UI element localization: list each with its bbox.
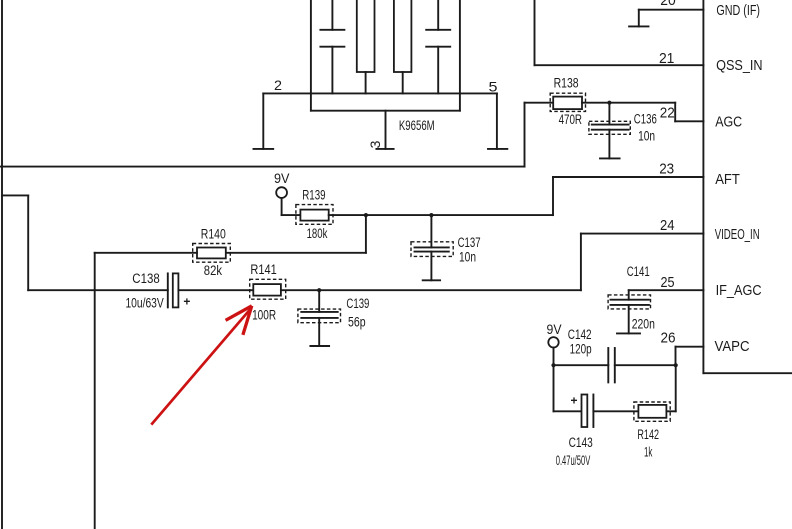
svg-text:+: + [183,294,190,308]
resistor R142 [634,402,670,421]
svg-text:R138: R138 [554,76,579,91]
wire pin 25 [629,289,704,291]
wire drop to pin 22 [674,103,676,122]
svg-text:R140: R140 [201,227,226,242]
wire left page border [1,0,3,529]
node junction R140 [364,213,368,217]
wire C142 right lead [615,364,676,366]
wire long horizontal net to R138 [0,166,525,168]
capacitor C142 [608,348,615,382]
resistor R138 [550,93,585,111]
svg-text:C142: C142 [568,327,592,342]
ground C137 [423,279,440,281]
capacitor C139 [298,290,341,346]
ceramic filter U-body outline K9656M [311,0,460,111]
svg-text:+: + [570,394,577,408]
capacitor C138 (electrolytic) [168,273,191,308]
wire left stub from border [2,195,28,290]
capacitor internal Ca [320,0,344,93]
wire C143 left lead [554,410,582,412]
wire riser to R138 [524,103,526,167]
resonator element internal Xa [357,0,375,93]
svg-text:26: 26 [661,330,676,347]
capacitor C143 (electrolytic) [570,394,593,428]
svg-text:C139: C139 [346,296,369,311]
svg-text:5: 5 [489,78,498,94]
node junction C139 [317,288,321,292]
ground C136 [600,157,620,159]
wire pin 24 [581,233,704,235]
wire R140 right lead [226,252,366,254]
wire pin 2 down [262,93,264,148]
node junction AGC [607,101,611,105]
svg-text:100R: 100R [252,308,276,323]
wire C138 to R141 [178,289,253,291]
wire pin 26 [676,346,704,348]
wire R139 to AFT [329,214,553,216]
resistor R140 [193,244,231,263]
svg-text:0.47u/50V: 0.47u/50V [556,453,591,468]
power 9V node (R139) [274,171,290,198]
wire main row to C138 [28,289,168,291]
svg-text:10u/63V: 10u/63V [125,295,163,310]
wire pin 22 [675,120,703,122]
op-amp IC body edge [703,0,792,373]
svg-text:VIDEO_IN: VIDEO_IN [715,226,760,243]
wire VIDEO_IN riser [580,234,582,291]
wire R140 left lead [95,252,197,254]
wire VAPC riser [675,347,677,366]
node junction C137 [429,213,433,217]
wire R138 right lead [582,102,675,104]
svg-text:C143: C143 [569,435,593,450]
ground pin 5 [488,148,507,150]
wire pin 21 [535,64,704,66]
svg-text:9V: 9V [547,322,562,337]
svg-text:9V: 9V [274,171,290,186]
svg-text:IF_AGC: IF_AGC [716,282,762,299]
svg-text:21: 21 [659,50,675,67]
svg-text:AGC: AGC [715,113,742,130]
svg-text:23: 23 [659,160,674,177]
ground C139 [310,345,329,347]
wire QSS_IN riser [534,0,536,65]
power 9V node (C142) [547,322,562,347]
svg-text:22: 22 [660,104,675,121]
annotation red arrow pointing at R141 [151,306,252,425]
wire AFT riser [552,177,554,215]
svg-text:QSS_IN: QSS_IN [716,57,763,74]
svg-text:25: 25 [661,274,675,291]
wire R138 left lead [525,102,554,104]
wire C142 left lead [554,364,609,366]
wire R141 to VIDEO_IN [281,289,581,291]
svg-text:VAPC: VAPC [715,338,750,355]
node junction 9V C142 [551,363,555,367]
wire pin 20 ground stem [638,10,640,27]
svg-text:C138: C138 [132,271,159,286]
svg-text:R142: R142 [637,427,659,442]
svg-text:56p: 56p [348,314,366,329]
wire R140 drop [365,215,367,253]
svg-text:10n: 10n [638,129,655,144]
ground pin 2 [254,148,274,150]
svg-text:GND (IF): GND (IF) [716,2,760,19]
ground pin 3 [376,148,393,150]
svg-text:C137: C137 [458,235,481,250]
wire 9V column [553,348,555,412]
wire pin 5 down [496,93,498,148]
wire pin 20 [639,9,704,11]
capacitor internal Cb [426,0,450,93]
svg-text:R139: R139 [302,188,325,203]
svg-text:82k: 82k [204,263,222,278]
wire 9V to R139 [282,198,301,215]
svg-text:R141: R141 [250,262,276,277]
svg-text:470R: 470R [559,112,583,127]
svg-text:C141: C141 [627,264,650,279]
svg-text:180k: 180k [307,226,328,241]
capacitor C136 [589,103,630,159]
svg-text:24: 24 [660,217,675,234]
svg-text:K9656M: K9656M [399,118,435,133]
wire R142 right lead [666,410,675,412]
ground C141 [617,332,640,334]
wire bus node pin2-pin5 [263,92,497,94]
svg-text:2: 2 [274,77,282,93]
svg-text:10n: 10n [459,249,476,264]
svg-text:20: 20 [660,0,676,9]
svg-text:1k: 1k [644,444,653,459]
capacitor C141 [608,290,650,333]
wire pin 23 [553,176,703,178]
svg-text:AFT: AFT [715,171,740,188]
svg-text:220n: 220n [632,317,655,332]
node junction VAPC [674,363,678,367]
svg-text:3: 3 [367,140,383,148]
svg-text:120p: 120p [570,342,592,357]
svg-text:C136: C136 [634,111,657,126]
resonator element internal Xb [394,0,412,93]
wire VAPC down to R142 [675,365,677,411]
ground pin 20 [629,25,648,27]
capacitor C137 [411,215,453,280]
wire pin 3 down [385,111,387,149]
resistor R139 [296,205,333,225]
wire C143 to R142 [593,410,638,412]
resistor R141 [250,279,286,299]
wire left column down [94,253,96,529]
